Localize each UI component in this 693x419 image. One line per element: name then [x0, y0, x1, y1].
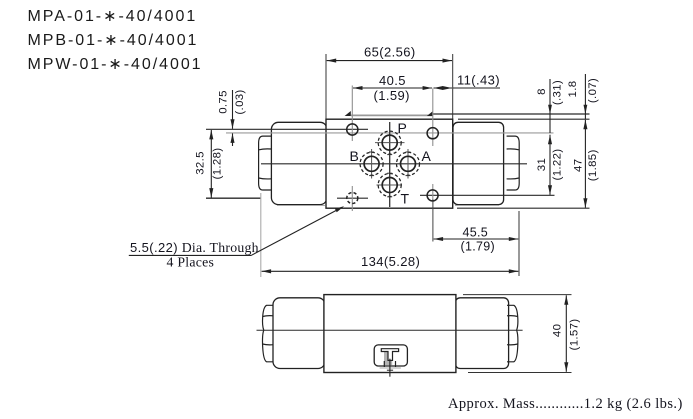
svg-text:MPW-01-∗-40/4001: MPW-01-∗-40/4001 — [28, 56, 203, 73]
svg-text:P: P — [398, 120, 407, 136]
svg-text:(.07): (.07) — [587, 78, 599, 103]
svg-text:(1.79): (1.79) — [461, 240, 495, 254]
svg-text:MPB-01-∗-40/4001: MPB-01-∗-40/4001 — [28, 32, 199, 49]
svg-text:MPA-01-∗-40/4001: MPA-01-∗-40/4001 — [28, 8, 198, 25]
svg-text:8: 8 — [536, 88, 548, 95]
svg-text:1.8: 1.8 — [567, 81, 579, 98]
svg-text:(1.57): (1.57) — [569, 319, 581, 351]
svg-text:134(5.28): 134(5.28) — [361, 254, 420, 269]
svg-text:11(.43): 11(.43) — [457, 73, 500, 88]
svg-text:40.5: 40.5 — [379, 73, 406, 88]
svg-text:(.31): (.31) — [551, 80, 563, 105]
svg-text:5.5(.22) Dia. Through: 5.5(.22) Dia. Through — [130, 240, 259, 255]
svg-text:32.5: 32.5 — [194, 151, 206, 175]
svg-text:B: B — [350, 148, 359, 164]
svg-text:(.03): (.03) — [234, 89, 246, 114]
svg-text:65(2.56): 65(2.56) — [364, 45, 416, 60]
svg-text:0.75: 0.75 — [218, 90, 230, 114]
svg-text:(1.22): (1.22) — [552, 149, 564, 181]
svg-text:A: A — [422, 148, 432, 164]
svg-text:4 Places: 4 Places — [167, 255, 215, 270]
svg-text:40: 40 — [552, 324, 564, 337]
svg-text:(1.85): (1.85) — [587, 149, 599, 181]
svg-text:47: 47 — [573, 159, 585, 172]
svg-text:45.5: 45.5 — [463, 226, 489, 240]
svg-text:(1.28): (1.28) — [211, 148, 223, 180]
svg-text:31: 31 — [536, 158, 548, 171]
svg-text:(1.59): (1.59) — [374, 88, 410, 103]
svg-text:T: T — [401, 191, 410, 207]
svg-text:Approx. Mass............1.2 kg: Approx. Mass............1.2 kg (2.6 lbs.… — [448, 396, 683, 412]
